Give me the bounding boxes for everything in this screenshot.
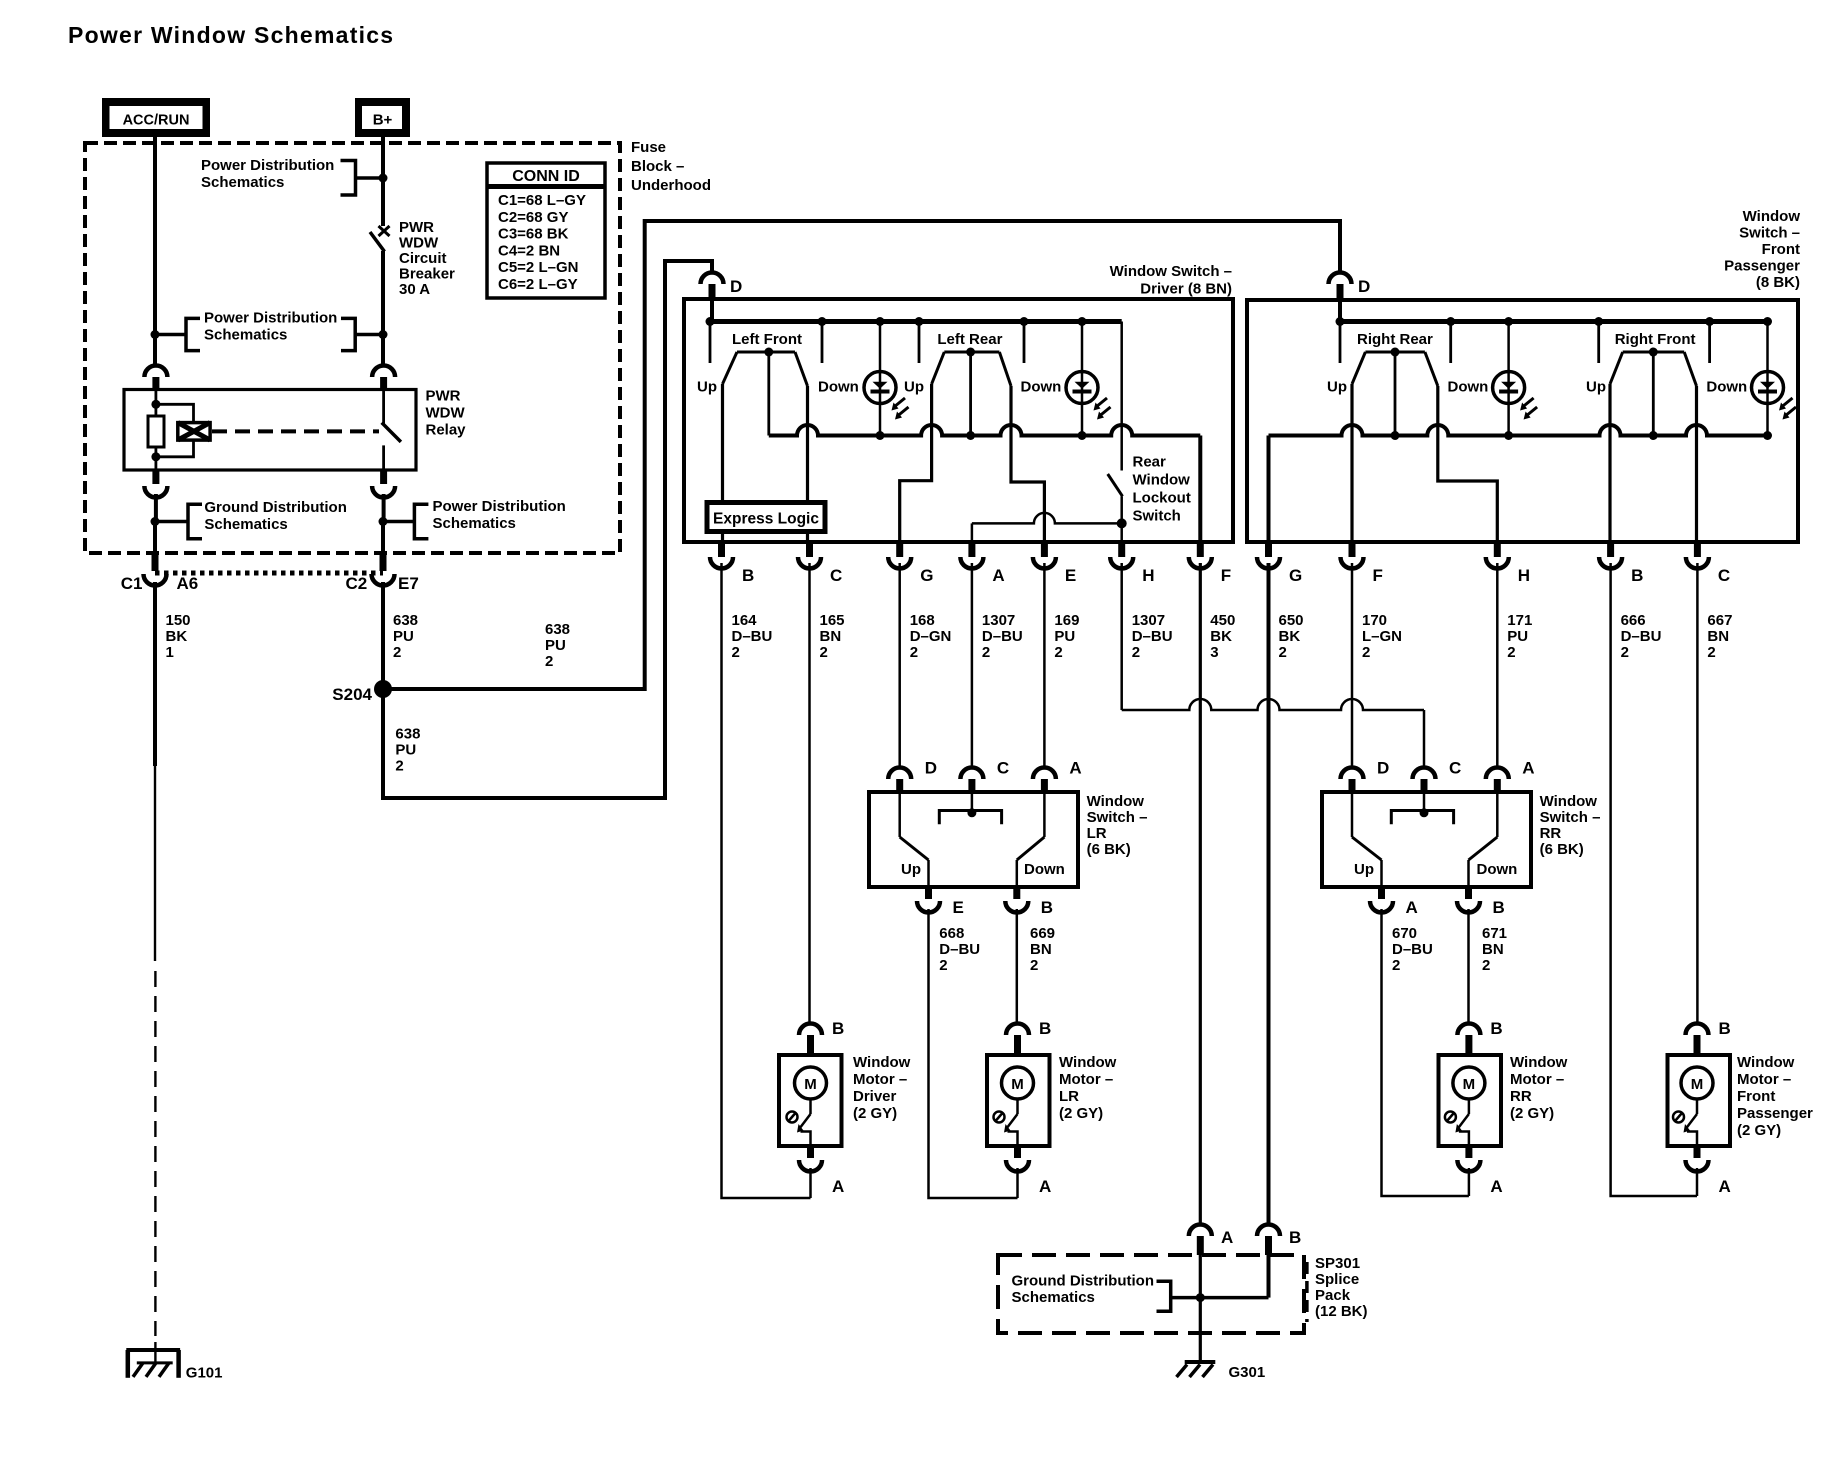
- connector passenger switch pin B: [1599, 542, 1643, 585]
- connector passenger switch pin H: [1486, 542, 1530, 585]
- svg-text:B: B: [742, 566, 754, 585]
- svg-text:PWRWDWRelay: PWRWDWRelay: [426, 388, 467, 439]
- connector SP301 pin A: [1189, 1225, 1233, 1256]
- wire 667 BN 2 (passenger C to motor FP B): [1697, 563, 1732, 1024]
- connector RR switch pin A: [1486, 759, 1535, 793]
- svg-text:B: B: [1039, 1019, 1051, 1038]
- driver LF down contact stub: [821, 322, 824, 364]
- label Window Switch RR (6 BK): [1540, 793, 1601, 858]
- LED driver 2: [1066, 322, 1111, 436]
- svg-text:C: C: [1449, 759, 1461, 778]
- svg-text:D: D: [925, 759, 937, 778]
- svg-text:B: B: [1289, 1228, 1301, 1247]
- driver switch output bus: [769, 425, 1201, 542]
- wire 1307 D-BU 2 (driver A to LR switch C): [972, 563, 1023, 769]
- connector LR switch pin E: [917, 887, 964, 917]
- svg-text:Down: Down: [1024, 861, 1065, 878]
- switch Right Rear (passenger): [1327, 348, 1488, 436]
- fuse block underhood dashed outline: [85, 143, 620, 553]
- svg-text:G: G: [1289, 566, 1302, 585]
- splice S204: [332, 680, 392, 704]
- connector C1 pin A6: [121, 553, 199, 593]
- wire 638 PU 2 (E7 to S204): [383, 582, 418, 689]
- label Right Front: [1615, 331, 1696, 348]
- svg-text:C: C: [997, 759, 1009, 778]
- wire 450 BK 3 (driver F to SP301 A): [1200, 563, 1235, 1225]
- motor M4: Window Motor Front Passenger: [1668, 1019, 1731, 1196]
- connector passenger switch pin F: [1341, 542, 1383, 585]
- window switch driver box: [684, 299, 1233, 542]
- svg-text:C2: C2: [346, 574, 368, 593]
- svg-text:Up: Up: [697, 379, 717, 396]
- svg-text:E: E: [1065, 566, 1076, 585]
- svg-text:A: A: [1490, 1177, 1502, 1196]
- wire 670 D-BU 2 (RR A to motor RR A): [1382, 909, 1469, 1196]
- wire 165 BN 2 (driver C to motor driver B): [810, 563, 845, 1024]
- wire 668 D-BU 2 (LR E to motor LR A): [929, 909, 1018, 1198]
- wire B+ feed upper segment: [381, 137, 385, 226]
- label Window Switch Driver (8 BN): [1110, 263, 1232, 298]
- callout Ground Distribution Schematics (fuse block): [151, 499, 347, 553]
- relay control dashed link: [212, 429, 379, 433]
- dotted connector line C1-C2: [155, 571, 383, 576]
- splice pack SP301 dashed box: [998, 1255, 1304, 1333]
- connector LR switch pin A: [1033, 759, 1082, 793]
- label Rear Window Lockout Switch: [1133, 454, 1191, 525]
- svg-text:D: D: [1377, 759, 1389, 778]
- svg-text:B+: B+: [373, 112, 393, 129]
- window switch LR box: [869, 792, 1078, 887]
- callout Ground Distribution Schematics (SP301): [1012, 1273, 1205, 1312]
- relay coil resistor: [148, 390, 164, 471]
- callout Power Distribution Schematics (top): [201, 157, 388, 195]
- svg-text:S204: S204: [332, 685, 372, 704]
- title: Power Window Schematics: [68, 22, 394, 48]
- wire 169 PU 2 (driver E to LR switch A): [1044, 563, 1079, 769]
- svg-text:C: C: [830, 566, 842, 585]
- label Window Switch Front Passenger (8 BK): [1724, 208, 1800, 291]
- LR switch internals: [900, 792, 1065, 887]
- wire 669 BN 2 (LR B to motor LR B): [1017, 909, 1055, 1024]
- svg-text:C: C: [1718, 566, 1730, 585]
- passenger RF down contact stub: [1708, 322, 1711, 364]
- wire LF up leg to express logic / pin B: [721, 384, 724, 542]
- wire 171 PU 2 (passenger H to RR switch A): [1497, 563, 1532, 769]
- driver switch supply bus: [706, 301, 1122, 326]
- wire 150 BK 1: [155, 582, 191, 1362]
- wire 1307 D-BU 2 (driver H to RR switch C): [1122, 563, 1424, 769]
- driver LR up contact stub: [918, 322, 921, 364]
- connector relay pin 4 (B+ side bottom): [372, 470, 395, 522]
- svg-text:Express Logic: Express Logic: [713, 511, 819, 528]
- svg-text:A: A: [1522, 759, 1534, 778]
- express logic box: [707, 503, 825, 532]
- connector passenger switch pin C: [1686, 542, 1730, 585]
- label Left Rear: [937, 331, 1002, 348]
- relay coil (crossed box): [156, 404, 210, 457]
- connector driver switch pin B: [710, 542, 754, 585]
- label Right Rear: [1357, 331, 1433, 348]
- wire LR down leg to pin E: [1011, 386, 1044, 542]
- wire RR down leg to pin H: [1438, 386, 1498, 542]
- svg-text:Down: Down: [1477, 861, 1518, 878]
- wire 638 PU 2 (S204 upper branch to passenger switch): [383, 221, 1340, 689]
- label PWR WDW Circuit Breaker 30 A: [399, 219, 455, 298]
- connector driver switch pin H: [1110, 542, 1154, 585]
- label Left Front: [732, 331, 802, 348]
- svg-text:Left Front: Left Front: [732, 331, 802, 348]
- passenger RF up contact stub: [1597, 322, 1600, 364]
- label Window Motor RR (2 GY): [1510, 1054, 1568, 1122]
- wire LF down leg to pin C: [806, 386, 809, 542]
- svg-text:CONN ID: CONN ID: [512, 168, 580, 185]
- callout Power Distribution Schematics (bottom): [379, 498, 566, 553]
- svg-text:Left Rear: Left Rear: [937, 331, 1002, 348]
- svg-text:B: B: [1719, 1019, 1731, 1038]
- connector LR switch pin C: [960, 759, 1009, 793]
- wire 638 PU 2 (S204 lower branch to driver switch): [383, 261, 712, 798]
- LED passenger 1: [1493, 322, 1538, 436]
- svg-text:M: M: [1463, 1076, 1476, 1093]
- svg-text:E: E: [953, 898, 964, 917]
- driver LR down contact stub: [1023, 322, 1026, 364]
- svg-text:B: B: [1490, 1019, 1502, 1038]
- svg-text:A: A: [832, 1177, 844, 1196]
- connector driver switch pin G: [888, 542, 933, 585]
- svg-text:B: B: [1041, 898, 1053, 917]
- svg-text:E7: E7: [398, 574, 419, 593]
- wire 666 D-BU 2 (passenger B to motor FP A): [1611, 563, 1697, 1196]
- svg-text:Up: Up: [901, 861, 921, 878]
- svg-text:M: M: [1011, 1076, 1024, 1093]
- svg-text:B: B: [1493, 898, 1505, 917]
- RR switch internals: [1352, 792, 1517, 887]
- svg-text:Right Front: Right Front: [1615, 331, 1696, 348]
- circuit breaker PWR WDW 30A: [370, 226, 390, 364]
- svg-text:H: H: [1518, 566, 1530, 585]
- connector passenger switch pin G: [1257, 542, 1302, 585]
- svg-text:D: D: [730, 277, 742, 296]
- window switch front passenger box: [1247, 300, 1798, 542]
- window switch RR box: [1322, 792, 1531, 887]
- svg-text:A: A: [1069, 759, 1081, 778]
- wire 671 BN 2 (RR B to motor RR B): [1469, 909, 1508, 1024]
- passenger RR down contact stub: [1449, 322, 1452, 364]
- connector LR switch pin D: [888, 759, 937, 793]
- connector relay pin 1 (ACC side top): [144, 366, 167, 391]
- motor M1: Window Motor Driver: [779, 1019, 844, 1198]
- svg-text:H: H: [1142, 566, 1154, 585]
- wire 170 L-GN 2 (passenger F to RR switch D): [1352, 563, 1402, 769]
- label PWR WDW Relay: [426, 388, 467, 439]
- svg-text:A: A: [1719, 1177, 1731, 1196]
- svg-text:A: A: [1406, 898, 1418, 917]
- SP301 internal wires: [1200, 1255, 1268, 1362]
- relay switch contact: [382, 390, 401, 471]
- svg-text:F: F: [1221, 566, 1231, 585]
- connector C2 pin E7: [346, 553, 419, 593]
- svg-text:A: A: [992, 566, 1004, 585]
- svg-text:A6: A6: [177, 574, 199, 593]
- passenger RR up contact stub: [1339, 322, 1342, 364]
- svg-text:ACC/RUN: ACC/RUN: [123, 113, 190, 129]
- switch Left Rear (driver): [904, 348, 1061, 436]
- svg-text:D: D: [1358, 277, 1370, 296]
- LED passenger 2: [1752, 322, 1797, 436]
- wire RF down leg to pin C: [1695, 386, 1698, 542]
- passenger switch supply bus: [1336, 302, 1773, 326]
- wire RR up leg to pin F: [1350, 384, 1353, 542]
- wire 650 BK 2 (passenger G to SP301 B): [1269, 563, 1304, 1225]
- wire RF up leg to pin B: [1608, 384, 1611, 542]
- connector RR switch pin B (bottom): [1457, 887, 1505, 917]
- wire 164 D-BU 2 (driver B to motor driver A): [722, 563, 811, 1198]
- ground G101: [126, 1350, 222, 1382]
- connector RR switch pin A (bottom): [1370, 887, 1418, 917]
- label SP301 Splice Pack (12 BK): [1307, 1255, 1368, 1322]
- label Window Motor Driver (2 GY): [853, 1054, 911, 1122]
- svg-text:B: B: [832, 1019, 844, 1038]
- label Window Motor LR (2 GY): [1059, 1054, 1117, 1122]
- connector relay pin 2 (B+ side top): [372, 366, 395, 391]
- connector driver switch pin A: [960, 542, 1004, 585]
- CONN ID table: [487, 163, 605, 298]
- connector D (passenger switch): [1329, 273, 1371, 302]
- power feed box B+: [355, 98, 410, 137]
- wire ACC/RUN feed (x=155): [153, 137, 157, 364]
- svg-text:M: M: [1691, 1076, 1704, 1093]
- label Window Switch LR (6 BK): [1087, 793, 1148, 858]
- connector driver switch pin F: [1189, 542, 1231, 585]
- passenger switch output bus: [1269, 425, 1773, 542]
- svg-text:G301: G301: [1229, 1364, 1266, 1381]
- switch Left Front (driver): [697, 348, 859, 436]
- svg-text:G: G: [920, 566, 933, 585]
- connector SP301 pin B: [1257, 1225, 1301, 1256]
- svg-text:A: A: [1039, 1177, 1051, 1196]
- power feed box ACC/RUN: [102, 98, 210, 137]
- wire LR up leg to pin G: [900, 384, 932, 542]
- svg-text:G101: G101: [186, 1365, 223, 1382]
- connector LR switch pin B: [1005, 887, 1053, 917]
- connector relay pin 3 (ACC side bottom): [144, 470, 167, 522]
- switch Right Front (passenger): [1586, 348, 1747, 436]
- motor M3: Window Motor RR: [1439, 1019, 1503, 1196]
- svg-text:Right Rear: Right Rear: [1357, 331, 1433, 348]
- label Fuse Block Underhood: [631, 139, 711, 194]
- svg-text:Down: Down: [818, 379, 859, 396]
- connector D (driver switch): [701, 273, 743, 301]
- svg-text:Down: Down: [1706, 379, 1747, 396]
- label Window Motor Front Passenger (2 GY): [1737, 1054, 1813, 1139]
- LED driver 1: [864, 322, 909, 436]
- motor M2: Window Motor LR: [987, 1019, 1051, 1198]
- driver LF up contact stub: [709, 322, 712, 364]
- svg-text:Power Window Schematics: Power Window Schematics: [68, 22, 394, 48]
- svg-text:F: F: [1373, 566, 1383, 585]
- callout Power Distribution Schematics (middle): [151, 310, 388, 351]
- svg-text:Up: Up: [1327, 379, 1347, 396]
- svg-text:M: M: [804, 1076, 817, 1093]
- svg-text:Up: Up: [1586, 379, 1606, 396]
- connector RR switch pin C: [1413, 759, 1462, 793]
- svg-text:A: A: [1221, 1228, 1233, 1247]
- connector driver switch pin C: [798, 542, 842, 585]
- wire 168 D-GN 2 (driver G to LR switch D): [900, 563, 952, 769]
- svg-text:Up: Up: [904, 379, 924, 396]
- relay K: PWR WDW Relay box: [124, 390, 416, 471]
- svg-text:C1: C1: [121, 574, 143, 593]
- svg-text:Down: Down: [1021, 379, 1062, 396]
- svg-text:B: B: [1631, 566, 1643, 585]
- svg-text:Up: Up: [1354, 861, 1374, 878]
- rear window lockout switch: [972, 322, 1127, 543]
- connector RR switch pin D: [1341, 759, 1390, 793]
- svg-text:Down: Down: [1448, 379, 1489, 396]
- connector driver switch pin E: [1033, 542, 1076, 585]
- ground G301: [1177, 1362, 1266, 1381]
